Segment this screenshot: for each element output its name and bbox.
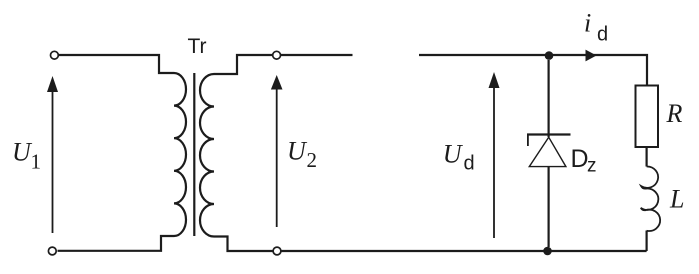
svg-text:Tr: Tr xyxy=(188,35,207,58)
transformer Tr core xyxy=(193,73,195,236)
terminal secondary bottom xyxy=(273,247,281,255)
node junction top (dot) xyxy=(545,51,554,60)
wire secondary top lead xyxy=(214,55,273,74)
resistor R xyxy=(636,86,659,148)
arrow U1 xyxy=(52,90,54,233)
diode Dz anode lead xyxy=(547,167,549,247)
svg-text:2: 2 xyxy=(307,148,318,172)
diode Dz triangle xyxy=(529,137,566,166)
svg-text:z: z xyxy=(587,156,597,177)
wire bottom (common return) xyxy=(281,250,646,252)
wire top-left (primary top lead) xyxy=(59,55,175,73)
svg-text:U: U xyxy=(287,137,308,166)
wire bottom-left (primary bottom lead) xyxy=(58,236,175,251)
arrow Ud xyxy=(493,88,495,238)
wire L to bottom xyxy=(645,231,647,252)
diode Dz cathode bar xyxy=(527,133,571,135)
arrow U2 xyxy=(276,89,278,227)
wire top-right section xyxy=(419,55,647,86)
svg-text:U: U xyxy=(443,140,464,169)
transformer Tr primary winding xyxy=(174,73,186,236)
svg-text:R: R xyxy=(666,99,683,128)
svg-text:d: d xyxy=(464,153,475,175)
svg-text:D: D xyxy=(571,145,589,173)
svg-text:L: L xyxy=(669,185,684,214)
inductor L xyxy=(641,166,660,231)
wire secondary bottom lead xyxy=(214,237,273,252)
svg-text:1: 1 xyxy=(31,150,42,174)
svg-text:i: i xyxy=(584,9,591,38)
diode Dz cathode lead xyxy=(547,60,549,137)
arrow id (current direction) xyxy=(586,50,597,62)
terminal secondary top xyxy=(273,51,281,59)
terminal bottom-left xyxy=(48,247,56,255)
wire secondary output top xyxy=(281,54,353,56)
transformer Tr secondary winding xyxy=(200,74,214,237)
terminal top-left xyxy=(51,51,59,59)
svg-text:d: d xyxy=(597,24,608,46)
node junction bottom (dot) xyxy=(543,247,552,256)
wire R to L xyxy=(645,147,647,167)
diode Dz cathode bar hook xyxy=(527,135,529,147)
